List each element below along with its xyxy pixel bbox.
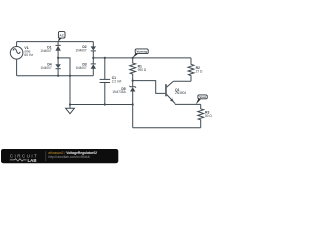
node: ground junction (69, 103, 71, 105)
C1 label (112, 76, 122, 84)
svg-text:2.2 mF: 2.2 mF (112, 79, 122, 83)
D1 label (40, 46, 51, 53)
wire: emitter to R3 (175, 103, 201, 105)
svg-text:990 Ω: 990 Ω (138, 68, 147, 72)
wire: base wire from R1/D5 node (133, 81, 166, 94)
svg-text:60 Hz: 60 Hz (24, 53, 33, 57)
flag Vunreg (132, 49, 148, 58)
diode D2 (91, 42, 96, 58)
resistor R1 (130, 58, 136, 81)
ground (66, 105, 75, 114)
svg-text:Vout: Vout (199, 95, 205, 99)
D2 label (76, 45, 87, 53)
node: D4 bottom junction (57, 75, 59, 77)
R3 label (205, 111, 212, 118)
node: C1 top tap (104, 57, 106, 59)
wire: top AC rail (17, 41, 94, 43)
wire: V1 bottom lead (16, 59, 18, 76)
transistor Q1 (165, 81, 175, 103)
node: R1 top tap (132, 57, 134, 59)
node: D2/D3 junction (92, 57, 94, 59)
wire: zener bottom drop (132, 105, 134, 128)
svg-text:1N4735A: 1N4735A (112, 90, 126, 94)
D5 label (112, 87, 126, 94)
resistor R3 (198, 104, 204, 127)
svg-text:Vunreg: Vunreg (136, 50, 147, 54)
svg-text:1N4007: 1N4007 (76, 48, 87, 52)
diode D3 (91, 58, 96, 76)
wire: ground rail (70, 104, 133, 106)
wire: left mid stub to ground drop (58, 58, 70, 105)
svg-text:1N4007: 1N4007 (40, 49, 51, 53)
wire: collector to R2 (173, 80, 191, 82)
R2 label (196, 66, 203, 73)
D3 label (76, 63, 87, 70)
svg-text:27 Ω: 27 Ω (196, 69, 203, 73)
svg-text:50 Ω: 50 Ω (205, 114, 212, 118)
diode D1 (55, 42, 60, 58)
node: R1/D5/base junction (132, 80, 134, 82)
node: D1/D4 junction (57, 57, 59, 59)
svg-text:1N4007: 1N4007 (41, 66, 52, 70)
zener diode D5 (129, 81, 136, 105)
wire: DC output rail (93, 57, 191, 59)
svg-text:1N4007: 1N4007 (76, 66, 87, 70)
wire: V1 top lead (16, 42, 18, 47)
wire: bridge bottom rail (17, 75, 94, 77)
D4 label (41, 63, 52, 70)
voltage source V1 (10, 47, 23, 60)
capacitor C1 (100, 58, 111, 105)
node: ground drop crossing bottom rail (69, 75, 71, 77)
flag Vout (196, 95, 207, 105)
node: C1 bottom tap (104, 103, 106, 105)
flag AC (58, 32, 65, 42)
resistor R2 (188, 58, 194, 81)
V1 label (24, 46, 33, 57)
watermark bar (1, 149, 118, 163)
node: zener bottom junction (132, 103, 134, 105)
R1 label (138, 65, 147, 72)
Q1 label (175, 88, 186, 95)
svg-text:LAB: LAB (28, 158, 37, 163)
svg-text:2N3904: 2N3904 (175, 91, 186, 95)
svg-text:http://circuitlab.com/c/v59dk4: http://circuitlab.com/c/v59dk4/ (48, 155, 90, 159)
wire: bottom return rail (133, 127, 201, 129)
diode D4 (55, 58, 60, 76)
